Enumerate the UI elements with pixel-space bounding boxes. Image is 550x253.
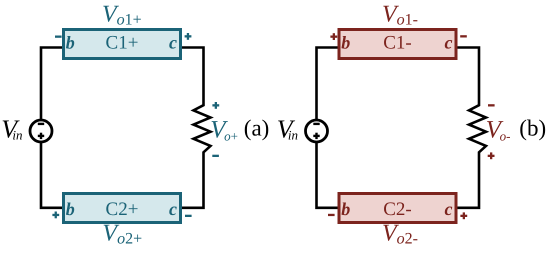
- svg-text:C1+: C1+: [106, 33, 139, 54]
- svg-text:(b): (b): [519, 116, 546, 141]
- svg-text:c: c: [445, 199, 453, 219]
- svg-text:C1-: C1-: [383, 33, 412, 54]
- svg-text:c: c: [169, 199, 177, 219]
- svg-text:b: b: [341, 199, 350, 219]
- svg-text:c: c: [445, 33, 453, 53]
- svg-text:b: b: [66, 199, 75, 219]
- svg-text:b: b: [66, 33, 75, 53]
- svg-text:b: b: [341, 33, 350, 53]
- svg-text:C2-: C2-: [383, 199, 412, 220]
- svg-text:C2+: C2+: [106, 199, 139, 220]
- svg-text:(a): (a): [244, 116, 270, 141]
- svg-text:c: c: [169, 33, 177, 53]
